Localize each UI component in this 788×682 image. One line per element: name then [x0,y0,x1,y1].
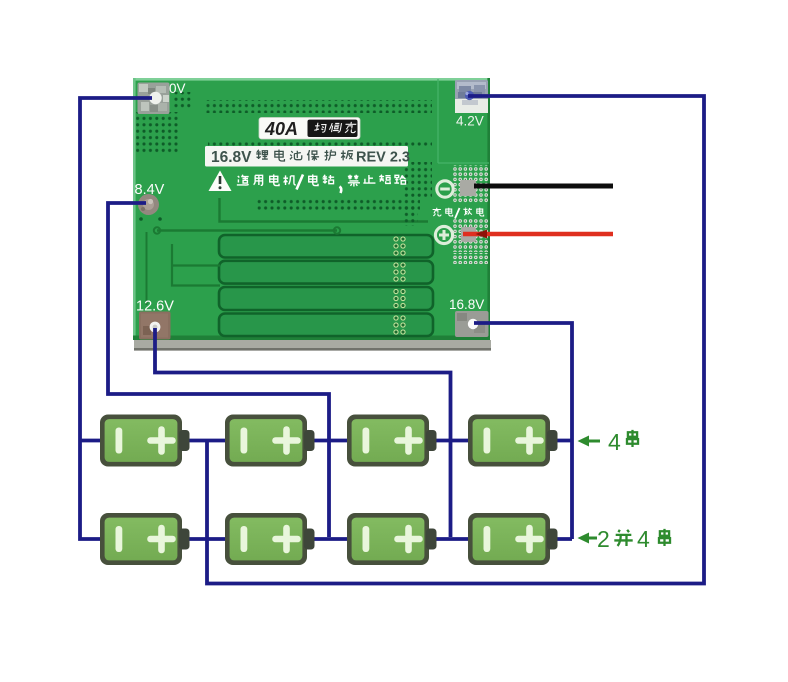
svg-text:40A: 40A [264,119,298,139]
warning triangle [209,171,232,192]
svg-text:0V: 0V [169,81,186,96]
PCB board 16.8V BMS [133,78,491,351]
copper pour bar 1 [219,235,433,258]
svg-text:16.8V: 16.8V [211,149,252,166]
pad 0V (B- balance) [138,83,170,115]
board left bevel [133,78,136,340]
battery B2 top row [225,415,315,467]
top via dot band [206,100,432,113]
svg-text:4: 4 [637,526,650,552]
copper pour bar 4 [219,314,433,337]
pad plus (P+) [461,227,476,242]
svg-text:4.2V: 4.2V [456,114,484,129]
via rings on copper bars [394,237,405,334]
minus symbol [437,181,453,197]
wire 0V (blue) [80,98,152,539]
battery B8 bottom row [468,513,558,565]
battery B4 top row [468,415,558,467]
wire 16.8V (blue) [474,323,572,539]
via dot grid below 0V pad [136,112,178,153]
board substrate [133,78,490,340]
battery B1 top row [100,415,190,467]
svg-text:16.8V: 16.8V [449,297,484,312]
white dot field around minus pad [453,165,488,203]
left L traces [172,244,220,286]
plus symbol [435,226,452,243]
annotation arrow 2并4串 [578,526,671,552]
silkscreen 充电/放电 [433,208,453,216]
battery B3 top row [347,415,437,467]
warning text 适用电机/电钻，禁止短路 [237,174,296,185]
svg-text:REV 2.3: REV 2.3 [356,150,410,166]
battery B7 bottom row [347,513,437,565]
copper pour bar 2 [219,261,433,284]
pad 12.6V [139,312,171,340]
dog-bone trace [157,229,337,231]
battery B5 bottom row [100,513,190,565]
trace to top label area [220,198,429,222]
left vertical trace [146,232,148,305]
via dots left of minus pad [402,162,432,198]
annotation arrow 4串 [578,429,639,455]
board gray bottom side [134,340,491,350]
wire 12.6V (blue) [155,328,451,537]
subpanel seam v-groove [438,79,489,163]
via dots pair below 8.4V pad [139,217,143,221]
wire 4.2V (blue) [207,96,704,584]
pad 16.8V [455,311,489,337]
pad 4.2V [455,80,488,113]
svg-text:2: 2 [597,526,610,552]
battery B6 bottom row [225,513,315,565]
wire black P- [474,184,613,189]
copper pour bar 3 [219,287,433,310]
label text 均衡充 [314,122,357,133]
via dot band above traces [256,199,420,212]
wire 0V stub to top row [80,439,101,443]
white dot rows below plus pad [452,253,488,264]
board bottom green edge [133,336,490,341]
40A label white [259,118,360,140]
white strip 16.8V 锂电池保护板 REV 2.3 [205,146,408,167]
top row battery link wires [189,439,572,443]
via dots right of 0V pad [172,92,192,108]
wire red P+ [463,232,613,236]
wire 8.4V (blue) [108,203,329,537]
white dot field around plus pad [453,219,488,252]
bottom row battery link wires [189,537,572,541]
pad 8.4V [138,194,159,215]
svg-text:4: 4 [608,429,621,455]
via dot band under 40A label [208,140,432,147]
board right bevel [487,78,490,340]
pad minus (P-) [460,180,476,196]
via dots below them [402,206,418,226]
board top bevel [133,78,490,81]
red wire arrow mark [476,230,488,239]
